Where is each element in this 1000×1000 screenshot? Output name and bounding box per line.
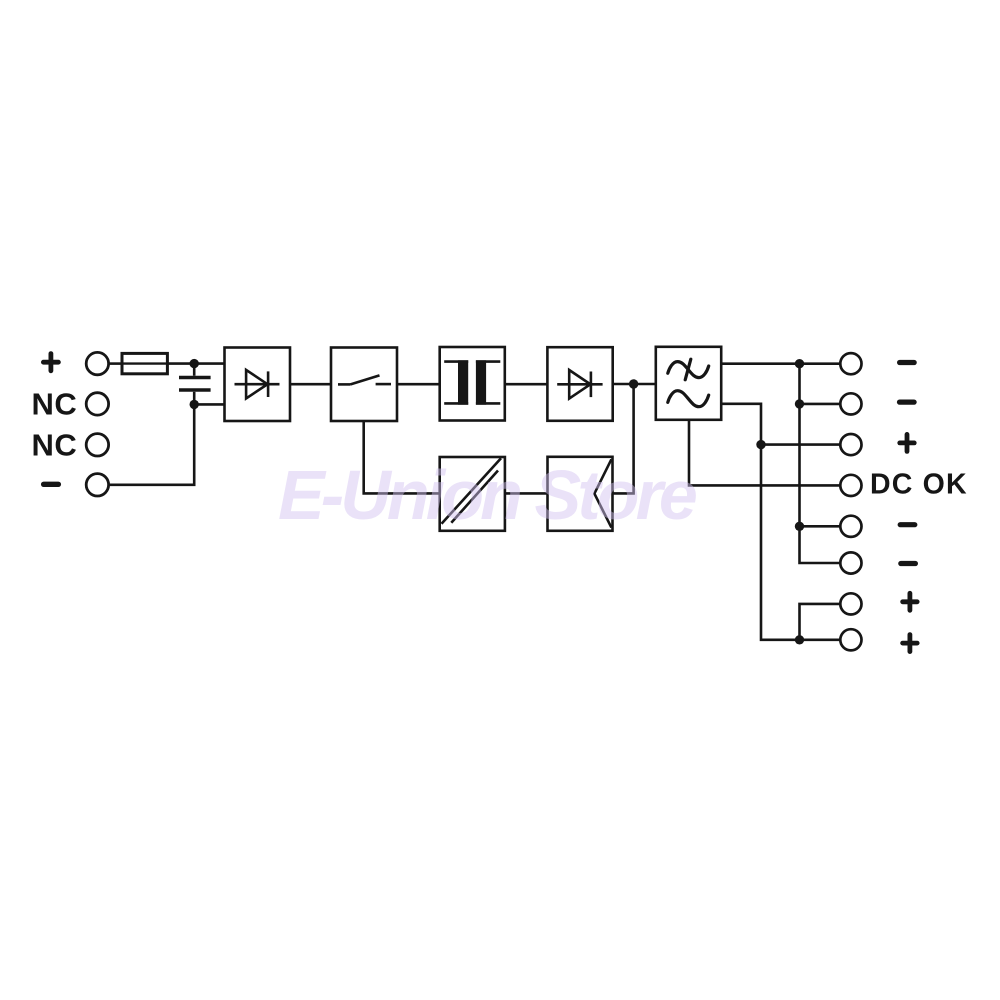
wire node B down and left to terminal - (109, 404, 195, 484)
wire node C down to box7 output (613, 384, 634, 493)
node A junction dot (190, 359, 199, 368)
wire box5 output1 to terminal out1 (721, 362, 840, 365)
wire box6 to box7 (505, 492, 548, 495)
terminal circle out4 DC OK (840, 475, 861, 496)
wire node G to terminal out8 (800, 638, 841, 641)
label out6 - (901, 561, 916, 566)
input diode block U1 (225, 348, 291, 422)
terminal circle NC row3 (86, 434, 108, 456)
terminal label - (input minus) (44, 482, 59, 487)
output diode block U3 (547, 347, 612, 421)
transformer block T1 (440, 347, 505, 421)
wire box2 bottom down to box6 (364, 421, 440, 494)
label out2 - (900, 400, 915, 405)
svg-text:NC: NC (32, 387, 78, 422)
output filter block U4 (656, 347, 721, 420)
label out3 + (900, 434, 915, 451)
terminal circle out3 + (840, 434, 861, 455)
fuse F1 (122, 353, 167, 373)
label out8 + (903, 635, 918, 652)
wire terminal+ to fuse (109, 362, 122, 365)
wire box5 bottom to DC OK terminal (689, 420, 840, 486)
wire node F to terminal out5 (800, 525, 841, 528)
node G junction dot (795, 635, 804, 644)
wire node H to terminal out3 (761, 443, 840, 446)
node H junction dot (756, 440, 765, 449)
wire fuse to node A (167, 362, 194, 365)
wire box4 to node C to box5 (613, 383, 656, 386)
node E junction dot (795, 399, 804, 408)
terminal circle out1 - (840, 353, 861, 374)
capacitor C1 top lead (193, 364, 196, 376)
terminal circle out7 + (840, 593, 861, 614)
switch block U2 (331, 348, 397, 422)
node C junction dot (629, 379, 638, 388)
node F junction dot (795, 522, 804, 531)
label out5 - (900, 522, 915, 527)
node D junction dot (795, 359, 804, 368)
wire box5 output2 positive feed (721, 404, 799, 640)
capacitor C1 bottom lead (193, 392, 196, 405)
terminal circle out8 + (840, 629, 861, 650)
wire box2 to box3 (397, 383, 440, 386)
label out7 + (903, 593, 918, 610)
svg-text:DC OK: DC OK (870, 469, 968, 501)
wire node G up to terminal out7 (800, 604, 841, 640)
label out1 - (900, 360, 915, 365)
terminal label + (input plus) (43, 354, 58, 371)
svg-text:NC: NC (32, 427, 78, 462)
wire box3 to box4 (505, 383, 548, 386)
terminal circle out2 - (840, 393, 861, 414)
lower regulator block U5 (diagonal) (440, 457, 505, 531)
wire node A to box1 top input (194, 362, 224, 365)
terminal circle input + (86, 352, 108, 374)
wire node B to box1 bottom input (194, 403, 224, 406)
terminal circle NC row2 (86, 393, 108, 415)
wire box1 to box2 (290, 383, 331, 386)
terminal circle input - (86, 474, 108, 496)
negative bus vertical (800, 364, 841, 563)
terminal circle out5 - (840, 516, 861, 537)
feedback block U6 (chevron) (548, 457, 613, 531)
capacitor C1 plates (179, 378, 211, 391)
node B junction dot (190, 400, 199, 409)
wire node E to terminal out2 (800, 403, 841, 406)
terminal circle out6 - (840, 552, 861, 573)
svg-text:E-Union Store: E-Union Store (278, 456, 696, 534)
